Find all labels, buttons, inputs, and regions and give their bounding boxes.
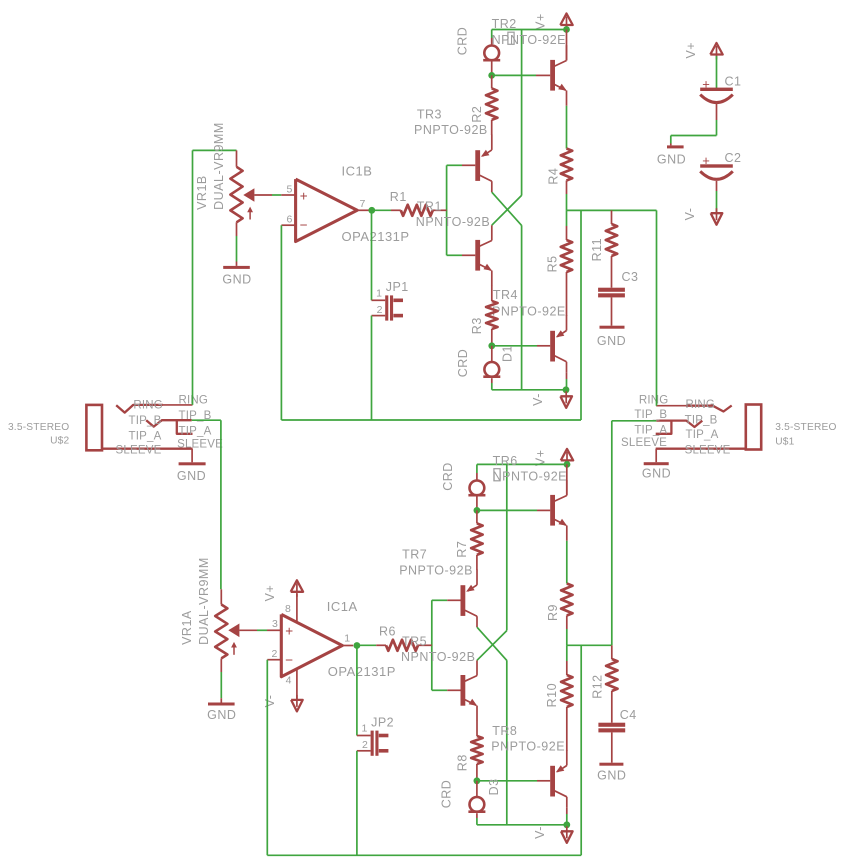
svg-text:CRD: CRD — [441, 462, 455, 491]
svg-text:NPNTO-92B: NPNTO-92B — [401, 650, 475, 664]
svg-text:TR6: TR6 — [493, 454, 518, 468]
svg-text:V-: V- — [683, 208, 697, 221]
svg-text:1: 1 — [362, 723, 368, 735]
IC1A pin 4 V- — [296, 669, 298, 700]
ground — [611, 297, 613, 325]
junction IC1A output — [354, 642, 361, 649]
wire V+ rail A — [477, 463, 567, 465]
svg-text:TR1: TR1 — [417, 200, 442, 214]
U$1 pin TIP_A — [656, 421, 672, 434]
potentiometer VR1B — [193, 149, 237, 151]
svg-text:C3: C3 — [622, 270, 639, 284]
svg-text:NPNTO-92B: NPNTO-92B — [416, 215, 490, 229]
power symbol V+ (supply) — [716, 46, 718, 60]
svg-text:6: 6 — [286, 213, 292, 225]
svg-text:R12: R12 — [591, 674, 605, 698]
wire — [716, 56, 718, 88]
wire — [716, 104, 718, 120]
svg-text:DUAL-VR9MM: DUAL-VR9MM — [212, 122, 226, 210]
resistor R12 — [611, 645, 613, 659]
wire V- rail A — [477, 824, 567, 826]
ground — [611, 732, 613, 762]
svg-text:PNPTO-92E: PNPTO-92E — [491, 740, 565, 754]
svg-text:2: 2 — [271, 648, 277, 660]
svg-text:R4: R4 — [547, 168, 561, 185]
wire — [671, 135, 717, 137]
svg-text:SLEEVE: SLEEVE — [177, 439, 223, 451]
svg-text:OPA2131P: OPA2131P — [342, 229, 410, 244]
resistor R1 — [372, 209, 391, 211]
wire TR4 base — [492, 345, 537, 347]
svg-text:SLEEVE: SLEEVE — [116, 445, 162, 457]
svg-text:U$1: U$1 — [775, 437, 794, 448]
resistor R2 — [491, 75, 493, 88]
wire output A to U$1 TIP_B riser — [611, 421, 613, 646]
power symbol V- (channel B) — [565, 391, 567, 403]
resistor R7 — [476, 510, 478, 523]
power symbol V- (supply) — [716, 208, 718, 220]
op-amp IC1A — [281, 614, 342, 676]
wire TR4 collector to V- — [566, 373, 568, 379]
svg-text:3: 3 — [272, 618, 278, 630]
transistor TR1 NPN driver — [475, 240, 480, 271]
resistor R6 — [357, 644, 376, 646]
svg-text:+: + — [702, 153, 710, 168]
junction V+ A — [564, 461, 571, 468]
IC1A pin 2 — [267, 659, 281, 661]
IC1B pin 7 output — [357, 209, 368, 211]
svg-text:NPNTO-92E: NPNTO-92E — [493, 470, 567, 484]
ground — [191, 449, 193, 463]
svg-text:4: 4 — [286, 675, 292, 687]
svg-text:RING: RING — [639, 394, 669, 406]
package marker TR6 — [494, 469, 500, 481]
svg-text:CRD: CRD — [440, 780, 454, 809]
svg-text:GND: GND — [207, 708, 236, 722]
svg-text:D3: D3 — [487, 778, 501, 795]
transistor TR4 PNP output — [550, 331, 555, 362]
svg-text:C4: C4 — [620, 708, 637, 722]
transistor TR5 NPN driver — [461, 675, 466, 706]
wire TR5 emitter to R8 — [476, 721, 478, 736]
svg-text:3.5-STEREO: 3.5-STEREO — [775, 422, 836, 433]
svg-text:R5: R5 — [546, 255, 560, 272]
diode D2 CRD current source top — [491, 30, 493, 39]
svg-text:CRD: CRD — [456, 27, 470, 56]
wire TR8 base — [477, 780, 537, 782]
wire U$2 RING to VR1B — [192, 150, 194, 405]
U$1 pin SLEEVE — [656, 448, 746, 450]
transistor TR8 PNP output — [550, 766, 555, 797]
svg-text:TIP_B: TIP_B — [685, 415, 718, 427]
svg-text:GND: GND — [222, 272, 251, 286]
svg-text:R9: R9 — [546, 604, 560, 621]
wire TR8 collector to V- — [566, 808, 568, 814]
power symbol V+ (channel A) — [566, 452, 568, 466]
svg-text:R10: R10 — [545, 683, 559, 707]
svg-text:VR1A: VR1A — [180, 610, 194, 645]
wire TR3 collector to V- rail — [492, 192, 522, 225]
svg-text:R1: R1 — [390, 190, 407, 204]
svg-text:R7: R7 — [455, 541, 469, 558]
svg-text:SLEEVE: SLEEVE — [685, 444, 731, 456]
svg-text:PNPTO-92B: PNPTO-92B — [399, 564, 473, 578]
VR1B wiper — [243, 188, 254, 202]
transistor TR2 NPN output — [550, 60, 555, 91]
svg-text:GND: GND — [177, 469, 206, 483]
op-amp IC1B — [296, 179, 358, 241]
capacitor C3 — [598, 288, 625, 292]
IC1A pin 1 output — [342, 645, 353, 647]
svg-text:JP1: JP1 — [386, 280, 409, 294]
junction A1 — [474, 507, 481, 514]
svg-text:R11: R11 — [590, 238, 604, 262]
svg-text:TIP_A: TIP_A — [634, 424, 667, 436]
svg-text:SLEEVE: SLEEVE — [621, 437, 667, 449]
diode CRD current source top A — [476, 464, 478, 473]
ground — [655, 449, 657, 463]
VR1A bottom to ground — [220, 658, 222, 672]
svg-text:IC1B: IC1B — [342, 164, 373, 179]
ground — [670, 144, 672, 146]
wire TR5 collector to V+ rail — [477, 631, 507, 661]
wire V+ to TR5 collector — [506, 464, 508, 630]
wire output node A — [567, 644, 612, 646]
wire feedback B — [280, 225, 282, 420]
junction B2 — [488, 342, 495, 349]
svg-text:5: 5 — [286, 184, 292, 196]
svg-text:TIP_A: TIP_A — [686, 429, 719, 441]
junction B1 — [488, 72, 495, 79]
transistor TR7 PNP driver — [461, 585, 466, 616]
connector U$2 3.5mm stereo jack body — [86, 405, 102, 450]
IC1B pin 6 — [281, 224, 295, 226]
svg-text:TR5: TR5 — [402, 635, 427, 649]
IC1A pin 3 — [267, 629, 281, 631]
svg-text:R8: R8 — [455, 754, 469, 771]
U$2 pin SLEEVE — [102, 448, 192, 450]
wire feedback A — [266, 660, 268, 856]
svg-text:NPNTO-92E: NPNTO-92E — [492, 33, 566, 47]
wire to TR6 base — [477, 509, 537, 511]
VR1B bottom to ground — [236, 222, 238, 236]
ground — [220, 698, 222, 702]
svg-text:R2: R2 — [470, 106, 484, 123]
svg-text:VR1B: VR1B — [195, 175, 209, 210]
capacitor C2 — [700, 164, 733, 167]
svg-text:JP2: JP2 — [371, 715, 394, 729]
diode D3 CRD current source bottom — [476, 781, 478, 797]
svg-text:V+: V+ — [534, 13, 548, 30]
VR1A wiper — [228, 624, 239, 638]
transistor TR3 PNP driver — [475, 150, 480, 181]
svg-text:GND: GND — [642, 466, 671, 480]
svg-text:C1: C1 — [725, 75, 742, 89]
wire V- rail B — [492, 389, 566, 391]
junction V- B — [563, 386, 570, 393]
svg-text:+: + — [702, 77, 710, 92]
package marker TR2 — [508, 32, 514, 44]
svg-text:D1: D1 — [501, 345, 515, 362]
svg-text:R6: R6 — [379, 624, 396, 638]
svg-text:V+: V+ — [684, 42, 698, 59]
potentiometer VR1A — [220, 420, 222, 589]
resistor R5 — [566, 210, 568, 226]
svg-text:V-: V- — [531, 393, 545, 406]
wire TR1 collector to V+ rail — [492, 195, 522, 225]
wire output node B — [567, 209, 657, 211]
jumper JP1 — [371, 210, 373, 300]
svg-text:TR2: TR2 — [492, 17, 517, 31]
svg-text:V+: V+ — [263, 585, 277, 602]
resistor R11 — [611, 210, 613, 224]
svg-text:RING: RING — [686, 399, 716, 411]
svg-text:TR7: TR7 — [402, 548, 427, 562]
svg-text:1: 1 — [344, 632, 350, 644]
svg-text:TIP_B: TIP_B — [129, 415, 162, 427]
U$2 pin TIP_B — [146, 420, 192, 426]
svg-text:PNPTO-92E: PNPTO-92E — [492, 304, 566, 318]
resistor R10 — [566, 645, 568, 661]
power symbol V- (channel A) — [566, 826, 568, 838]
svg-text:−: − — [285, 653, 293, 668]
junction V- A — [563, 821, 570, 828]
svg-text:2: 2 — [377, 304, 383, 316]
svg-text:TR3: TR3 — [417, 107, 442, 121]
svg-text:C2: C2 — [725, 151, 742, 165]
wire V+ rail B — [492, 29, 567, 31]
capacitor C1 — [700, 88, 733, 91]
transistor TR6 NPN output — [550, 495, 555, 526]
wire R5 to TR4 emitter — [566, 272, 568, 316]
diode D1 CRD current source bottom — [491, 346, 493, 362]
U$2 pin TIP_A — [177, 421, 193, 434]
svg-text:TR4: TR4 — [493, 288, 518, 302]
svg-text:TIP_A: TIP_A — [179, 426, 212, 438]
svg-text:GND: GND — [597, 769, 626, 783]
wire V+ to TR1 collector — [521, 30, 523, 196]
resistor R8 — [471, 736, 482, 764]
svg-text:TIP_B: TIP_B — [634, 409, 667, 421]
svg-text:IC1A: IC1A — [327, 599, 358, 614]
wire output to U$1 RING — [656, 210, 658, 405]
junction IC1B output — [368, 207, 375, 214]
U$1 pin RING — [656, 405, 686, 407]
power symbol V+ (channel B) — [566, 17, 568, 31]
svg-text:V-: V- — [533, 826, 547, 839]
resistor R3 — [486, 301, 497, 329]
svg-text:TIP_A: TIP_A — [129, 430, 162, 442]
IC1B pin 5 — [281, 194, 295, 196]
IC1A pin 8 V+ — [296, 583, 298, 597]
svg-text:PNPTO-92B: PNPTO-92B — [414, 123, 488, 137]
U$1 pin TIP_B — [656, 421, 702, 427]
svg-text:3.5-STEREO: 3.5-STEREO — [8, 422, 69, 433]
svg-text:R3: R3 — [470, 317, 484, 334]
junction V+ B — [563, 26, 570, 33]
wire TR1 emitter to R3 — [491, 286, 493, 302]
connector U$1 3.5mm stereo jack body — [746, 405, 761, 450]
svg-text:V-: V- — [263, 695, 277, 708]
svg-text:−: − — [300, 217, 308, 232]
svg-text:GND: GND — [657, 153, 686, 167]
svg-text:OPA2131P: OPA2131P — [328, 664, 396, 679]
ground — [236, 262, 238, 266]
junction A2 — [474, 777, 481, 784]
wire — [716, 181, 718, 191]
svg-text:+: + — [300, 188, 308, 203]
wire TR7 collector to V- rail — [477, 627, 507, 660]
wire R10 to TR8 emitter — [566, 707, 568, 751]
svg-text:U$2: U$2 — [50, 436, 69, 447]
resistor R9 — [561, 584, 572, 616]
VR1A adjust arrow — [233, 646, 235, 655]
resistor R4 — [561, 149, 572, 181]
svg-text:2: 2 — [362, 739, 368, 751]
svg-text:8: 8 — [285, 603, 291, 615]
wire U$2 TIP_B to VR1A — [192, 419, 221, 421]
jumper JP2 — [356, 646, 358, 736]
wire base bus A — [431, 600, 433, 690]
svg-text:GND: GND — [597, 334, 626, 348]
wire to TR2 base — [492, 74, 536, 76]
svg-text:+: + — [285, 624, 293, 639]
svg-text:DUAL-VR9MM: DUAL-VR9MM — [197, 557, 211, 645]
svg-text:RING: RING — [133, 400, 163, 412]
capacitor C4 — [598, 723, 625, 727]
wire base bus B — [446, 165, 448, 255]
svg-text:7: 7 — [360, 198, 366, 210]
svg-text:CRD: CRD — [456, 349, 470, 378]
svg-text:1: 1 — [376, 288, 382, 300]
svg-text:TR8: TR8 — [492, 724, 517, 738]
VR1B adjust arrow — [249, 211, 251, 220]
U$2 pin RING — [116, 405, 163, 413]
